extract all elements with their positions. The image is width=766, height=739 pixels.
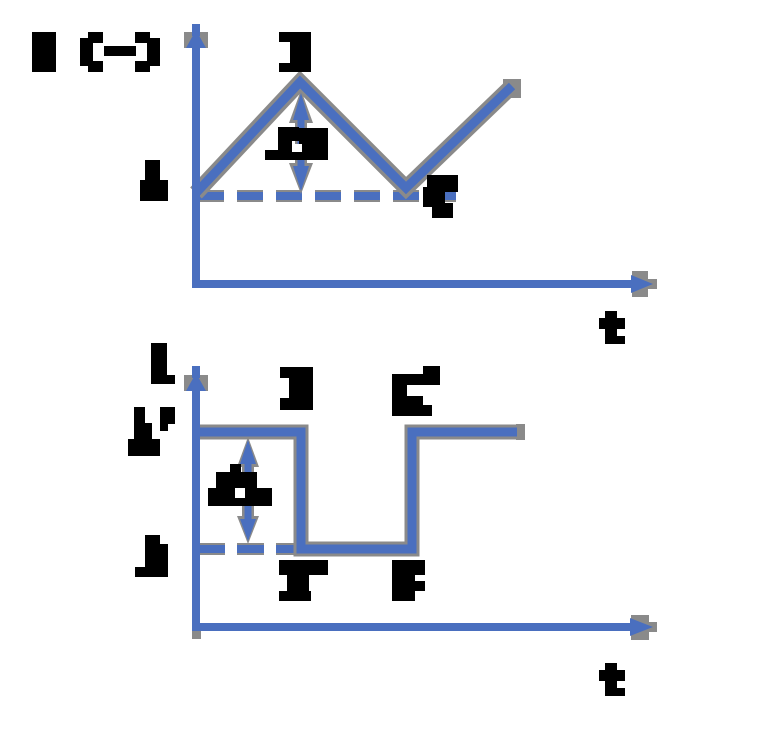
- dashed low level line: [198, 543, 301, 555]
- label b (low level): [135, 535, 168, 577]
- triangle waveform casing: [196, 82, 512, 193]
- y axis (bottom): [192, 370, 200, 631]
- label C (valley): [423, 175, 458, 218]
- waveform end cap: [516, 424, 525, 440]
- label dB (delta): [265, 127, 328, 160]
- x axis arrowhead (bottom): [630, 615, 657, 640]
- label B (peak): [279, 32, 311, 72]
- label B (top of drop): [280, 367, 313, 410]
- label B' (bottom of drop): [279, 560, 328, 601]
- delta arrow (double-headed, peak to baseline): [289, 90, 313, 194]
- label E ( - ) top-left: [32, 32, 160, 72]
- delta arrow (double-headed, bottom graph): [237, 437, 259, 544]
- triangle waveform: [196, 82, 512, 193]
- label C (bottom of rise): [392, 560, 425, 601]
- square waveform: [196, 432, 517, 549]
- label t (bottom axis): [599, 663, 625, 696]
- dashed baseline (level A): [198, 190, 456, 202]
- x axis (bottom): [192, 630, 201, 639]
- label C' (top of rise): [392, 366, 440, 416]
- label A (left of axis): [140, 160, 168, 201]
- y axis arrowhead: [184, 24, 208, 48]
- x axis: [192, 280, 640, 288]
- label L (current axis): [151, 343, 175, 384]
- label A' (high level): [128, 407, 175, 456]
- y axis: [192, 30, 200, 288]
- square waveform casing: [196, 432, 517, 549]
- label di (delta, bottom): [208, 464, 272, 506]
- waveform endpoint marker: [503, 79, 521, 98]
- label t (top axis): [599, 311, 625, 344]
- x axis arrowhead: [631, 271, 657, 297]
- y axis arrowhead (bottom): [184, 366, 208, 391]
